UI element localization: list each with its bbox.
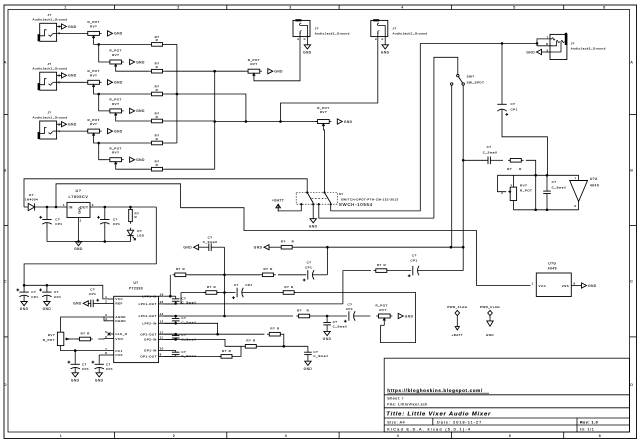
svg-text:GND: GND [405, 314, 414, 318]
PT2399 pin 2 REF [105, 300, 122, 306]
wire V1 riser pin15 row to row Z [343, 271, 371, 304]
PT2399 pin 3 AGND [105, 313, 126, 319]
audio jack J3 (AudioJack2_Ground) input channel 3 [32, 111, 67, 139]
PT2399 pin 15 LPF1-OUT [139, 300, 164, 306]
capacitor C_Small bridging pins 12/11 [164, 333, 196, 341]
svg-text:16: 16 [160, 292, 164, 296]
junction feedback rail top [534, 174, 537, 177]
PT2399 pin 1 VCC [105, 295, 123, 301]
wire return jack J5 tip [281, 37, 378, 122]
wire row D to Rg [225, 315, 294, 317]
svg-text:3: 3 [289, 5, 292, 9]
svg-text:6: 6 [603, 5, 606, 9]
junction mix step [245, 120, 248, 123]
svg-text:4049: 4049 [548, 267, 557, 271]
PT2399 pin 7 CC1 [105, 347, 122, 353]
wire J2 tip to volume pot RV2 [57, 81, 86, 83]
wire DPDT pin to bypass switch link [319, 57, 458, 218]
wire row C to feedback loop [297, 293, 416, 343]
ground arrow below DPDT [309, 219, 318, 229]
junction LED resistor [129, 206, 132, 209]
wire RV2b wiper to send resistor [116, 117, 150, 121]
svg-text:1: 1 [60, 434, 63, 438]
audio jack J4 send (AudioJack2_Ground) [293, 19, 350, 39]
battery flag +BATT [272, 198, 284, 211]
power flag PWR_FLAG GND [480, 305, 500, 337]
svg-text:U?: U? [75, 189, 81, 193]
svg-text:GND: GND [136, 158, 145, 162]
ground flag at J6 mirrored [526, 49, 541, 54]
svg-text:GND: GND [486, 333, 494, 337]
title block url [387, 388, 489, 393]
wire RV4 wiper to send jack J4 [254, 37, 300, 81]
svg-text:C?: C? [113, 218, 118, 222]
wire RV3 wiper down to mix node [94, 137, 150, 143]
svg-text:R_POT: R_POT [520, 188, 532, 192]
junction row F [283, 345, 286, 348]
svg-text:C?: C? [82, 362, 87, 366]
junction C2 [104, 206, 107, 209]
svg-text:GND: GND [20, 307, 29, 311]
svg-text:AudioJack2_Ground: AudioJack2_Ground [315, 32, 350, 36]
junction C4 top [46, 284, 49, 287]
svg-text:RV?: RV? [112, 53, 119, 57]
jack J5 return sleeve wire down [384, 37, 386, 45]
svg-text:AudioJack2_Ground: AudioJack2_Ground [32, 18, 67, 22]
capacitor C3 CP1 5V rail [16, 285, 38, 301]
svg-text:R: R [213, 285, 216, 289]
svg-text:R?: R? [284, 285, 289, 289]
resistor R13 row D [296, 314, 312, 318]
svg-text:C?: C? [552, 180, 557, 184]
svg-text:C?: C? [106, 362, 111, 366]
svg-text:1: 1 [532, 281, 534, 285]
wire R3a to mix bus [165, 142, 177, 144]
svg-text:C?: C? [511, 102, 516, 106]
wire R1a to mix bus [165, 43, 177, 45]
junction pin16 riser [169, 295, 172, 298]
potentiometer RV2b R_POT channel 2 send [108, 109, 124, 117]
wire jack J6 sleeve to ground flag [542, 51, 551, 53]
svg-text:B: B [630, 168, 633, 172]
svg-text:GND: GND [303, 50, 312, 54]
junction return drop [279, 120, 282, 123]
junction mix/echo node [462, 246, 465, 249]
resistor R11 row C first [204, 291, 220, 295]
svg-text:7: 7 [105, 347, 107, 351]
junction echo feed row [462, 159, 465, 162]
potentiometer RV5 R_POT return level [315, 120, 331, 128]
capacitor C4 CP1 5V rail [39, 285, 61, 301]
IC U3 PT2399 echo processor [114, 281, 159, 363]
audio jack J2 (AudioJack2_Ground) input channel 2 [32, 62, 67, 90]
svg-text:D: D [4, 383, 7, 387]
svg-text:1: 1 [105, 295, 107, 299]
svg-text:R: R [135, 215, 138, 219]
ground arrow C6 [71, 373, 80, 383]
capacitor C_Small hanging row F [304, 346, 328, 361]
resistor R18 output row [374, 263, 390, 272]
svg-text:J?: J? [47, 13, 51, 17]
svg-text:R?: R? [281, 240, 286, 244]
svg-text:R?: R? [377, 263, 382, 267]
junction row E staircase [216, 333, 219, 336]
svg-text:C?: C? [487, 145, 492, 149]
resistor R19 echo feed [508, 159, 524, 163]
PT2399 pin 14 LPF2-OUT [139, 312, 164, 318]
svg-text:D: D [630, 383, 633, 387]
svg-text:+BATT: +BATT [452, 333, 464, 337]
svg-text:R?: R? [207, 285, 212, 289]
wire CC0 pin [99, 354, 108, 356]
raw battery rail to 4049 VCC [56, 184, 531, 286]
svg-text:R: R [156, 38, 159, 42]
svg-text:L7805CV: L7805CV [69, 195, 89, 199]
wire RV1 wiper down to mix node [94, 39, 150, 44]
svg-text:LPF1-OUT: LPF1-OUT [139, 302, 157, 306]
svg-text:CC0: CC0 [115, 353, 122, 357]
svg-text:IN: IN [69, 205, 73, 209]
svg-text:B: B [4, 168, 7, 172]
svg-text:R?: R? [81, 331, 86, 335]
wire RV5 wiper down to DPDT switch [323, 127, 324, 192]
capacitor C1 CP1 input [39, 207, 62, 242]
wire J1 tip to volume pot RV1 [57, 32, 86, 34]
svg-text:CP1: CP1 [305, 266, 312, 270]
svg-text:3: 3 [285, 434, 288, 438]
ground flag at RV5 pin 3 [337, 119, 352, 124]
svg-text:J?: J? [47, 111, 51, 115]
junction mix bus row 3 [176, 93, 179, 96]
audio jack J1 (AudioJack2_Ground) input channel 1 [32, 13, 67, 41]
svg-text:CP1: CP1 [511, 107, 518, 111]
svg-text:R: R [156, 65, 159, 69]
mix bus vertical [176, 44, 178, 143]
svg-text:R: R [519, 167, 522, 171]
wire output rail to jack J6 [420, 42, 537, 44]
junction capC row E [174, 333, 177, 336]
svg-text:2: 2 [501, 191, 503, 195]
svg-text:GND: GND [274, 70, 283, 74]
svg-text:GND: GND [68, 25, 77, 29]
wire R8 to VCO pin 6 [98, 338, 108, 340]
svg-text:R?: R? [176, 267, 181, 271]
svg-text:R?: R? [270, 327, 275, 331]
svg-text:R: R [383, 263, 386, 267]
capacitor C12 C_Small feedback [543, 175, 566, 210]
junction capB row D [174, 315, 177, 318]
svg-text:1N4004: 1N4004 [25, 198, 38, 202]
svg-text:SWITCH-DPDT-PTH-CM-132-3013: SWITCH-DPDT-PTH-CM-132-3013 [341, 197, 399, 201]
capacitor C_Small bridging pins 16/15 [164, 296, 196, 304]
svg-text:R?: R? [222, 349, 227, 353]
ground arrow at J5 return [381, 45, 390, 55]
svg-text:GND: GND [74, 247, 83, 251]
capacitor C2 CP1 output [97, 207, 120, 242]
border column ticks [115, 5, 564, 439]
power flag PWR_FLAG +BATT [447, 305, 467, 337]
svg-text:CP1: CP1 [410, 259, 417, 263]
svg-text:LED: LED [137, 233, 145, 237]
resistor R17 mix row [269, 240, 295, 249]
svg-text:Rev: 1.0: Rev: 1.0 [580, 420, 598, 424]
junction pin13 capB [174, 322, 177, 325]
capacitor C_Small hanging row D [323, 316, 347, 331]
wire switched battery rail to diode anode [24, 179, 307, 207]
svg-text:OP2-IN: OP2-IN [144, 338, 157, 342]
wire mix row to switch column [295, 246, 464, 248]
switch SW1 SW_SPDT bypass [451, 74, 485, 85]
wire jack J6 tip and ring tie [537, 35, 550, 52]
svg-text:1: 1 [64, 5, 67, 9]
svg-text:C?: C? [234, 283, 239, 287]
svg-text:GND: GND [344, 120, 353, 124]
wire node to send pot RV2b [99, 94, 108, 111]
ground flag at RV3 pin 3 [108, 129, 123, 134]
svg-text:C_Small: C_Small [313, 354, 328, 358]
svg-text:R?: R? [297, 308, 302, 312]
resistor R1b send resistor [149, 69, 165, 73]
ground flag at RV2 pin 3 [108, 80, 123, 85]
svg-text:R: R [156, 137, 159, 141]
PT2399 pin 16 LPF1-IN [142, 292, 163, 298]
svg-text:C_Small: C_Small [552, 185, 567, 189]
junction jack J6 tie [536, 42, 539, 45]
ground flag at RV1b pin 3 [130, 59, 145, 64]
svg-text:J?: J? [571, 42, 575, 46]
ground flag at J2 sleeve [62, 73, 77, 78]
wire R9 to junction [188, 274, 260, 276]
potentiometer RV4 R_POT master send [246, 69, 262, 77]
junction cap C1 top [46, 206, 49, 209]
svg-text:SW?: SW? [467, 75, 475, 79]
svg-text:KiCad E.D.A. kicad (5.0.1)-4: KiCad E.D.A. kicad (5.0.1)-4 [387, 427, 471, 431]
regulator ground rail [47, 241, 131, 243]
svg-text:OP1-IN: OP1-IN [144, 349, 157, 353]
svg-text:7: 7 [574, 176, 576, 180]
wire LED to ground rail [130, 236, 132, 242]
resistor R8 VCO [77, 337, 93, 341]
junction capA on pin15 row [174, 302, 177, 305]
potentiometer RV6 R_POT delay time [43, 330, 70, 348]
svg-text:2: 2 [177, 5, 180, 9]
svg-text:3: 3 [92, 203, 94, 207]
potentiometer RV1b R_POT channel 1 send [108, 60, 124, 68]
ground flag RfF [254, 245, 269, 250]
svg-text:VCC: VCC [539, 284, 547, 288]
svg-text:11: 11 [160, 336, 164, 340]
wire C8 up to dry mix node [326, 247, 328, 275]
wire pin15 long output row [164, 303, 343, 305]
svg-text:S?: S? [339, 192, 344, 196]
ground arrow C7 [95, 373, 104, 383]
wire row F to capG [259, 345, 308, 347]
svg-text:GND: GND [71, 378, 80, 382]
potentiometer RV7 R_POT echo volume [376, 314, 392, 322]
svg-text:J?: J? [47, 62, 51, 66]
wire R2a to mix bus [165, 93, 177, 95]
svg-text:R?: R? [507, 167, 512, 171]
svg-text:GND: GND [526, 50, 535, 54]
svg-text:R: R [156, 88, 159, 92]
svg-text:CP1: CP1 [346, 307, 353, 311]
svg-text:1: 1 [63, 203, 65, 207]
svg-text:GND: GND [114, 129, 123, 133]
svg-text:GND: GND [183, 246, 192, 250]
svg-text:6: 6 [574, 204, 576, 208]
junction send bus row 4 [213, 120, 216, 123]
svg-text:GND: GND [309, 224, 318, 228]
svg-text:AudioJack2_Ground: AudioJack2_Ground [32, 67, 67, 71]
svg-text:R?: R? [246, 339, 251, 343]
wire +5V down to PT2399 rail [24, 207, 156, 299]
svg-text:D?: D? [137, 229, 142, 233]
junction send bus row 2 [213, 70, 216, 73]
svg-text:GND: GND [254, 246, 263, 250]
svg-text:GND: GND [114, 32, 123, 36]
wire R3b to send bus [165, 168, 215, 170]
svg-text:R: R [277, 327, 280, 331]
svg-text:12: 12 [160, 330, 164, 334]
svg-text:CP1: CP1 [113, 222, 120, 226]
PT2399 pin 11 OP2-IN [144, 336, 164, 342]
resistor R15 row F [243, 339, 259, 348]
wire pin11 to row F [164, 338, 176, 340]
resistor R1a mix resistor [149, 43, 165, 47]
PT2399 pin 8 CC0 [105, 351, 122, 357]
send bus vertical [214, 71, 216, 169]
svg-text:4: 4 [401, 5, 404, 9]
svg-text:RV?: RV? [90, 73, 97, 77]
junction node channel 2 wiper [97, 93, 100, 96]
svg-text:C?: C? [31, 290, 36, 294]
svg-text:https://bloghoskins.blogspot.c: https://bloghoskins.blogspot.com/ [387, 388, 483, 393]
svg-text:x: x [511, 183, 513, 187]
svg-text:GND: GND [381, 50, 390, 54]
svg-text:RV?: RV? [320, 110, 327, 114]
svg-text:LPF1-IN: LPF1-IN [142, 294, 156, 298]
wire pin14 row D [164, 315, 225, 317]
wire DPDT pole1 common to ground [312, 204, 314, 219]
wire node to send pot RV1b [99, 44, 108, 62]
svg-text:R?: R? [264, 267, 269, 271]
svg-text:GND: GND [323, 337, 332, 341]
svg-text:R: R [253, 339, 256, 343]
svg-text:10: 10 [160, 347, 164, 351]
ground flag at J3 sleeve [62, 122, 77, 127]
wire R19 to feedback node [526, 160, 536, 210]
svg-text:CP1: CP1 [55, 222, 62, 226]
svg-text:C_Small: C_Small [483, 151, 498, 155]
wire RV1b wiper to send resistor [116, 68, 150, 71]
svg-text:LPF2-IN: LPF2-IN [142, 322, 156, 326]
feedback top rail [498, 174, 579, 176]
svg-text:4049: 4049 [590, 183, 599, 187]
svg-text:U?G: U?G [548, 262, 556, 266]
ground flag at RV3b pin 3 [130, 157, 145, 162]
wire node to send pot RV3b [99, 143, 108, 160]
wire J3 tip to volume pot RV3 [57, 130, 86, 132]
svg-text:RV?: RV? [90, 122, 97, 126]
svg-text:C?: C? [90, 287, 95, 291]
wire row G up to row F [234, 346, 241, 356]
svg-text:SW_SPDT: SW_SPDT [467, 81, 485, 85]
svg-text:T: T [547, 35, 549, 39]
junction row D [223, 315, 226, 318]
svg-text:RV?: RV? [112, 151, 119, 155]
svg-text:CC1: CC1 [115, 349, 122, 353]
svg-text:2: 2 [80, 219, 82, 223]
svg-text:R_POT: R_POT [43, 338, 55, 342]
svg-text:13: 13 [160, 320, 164, 324]
potentiometer RV1 R_POT channel 1 volume [86, 31, 102, 39]
wire DPDT pin to output jack rail [331, 43, 421, 211]
svg-text:PT2399: PT2399 [129, 286, 143, 290]
potentiometer RV3 R_POT channel 3 volume [86, 129, 102, 137]
capacitor C_Small series capE [199, 235, 225, 251]
svg-text:GND: GND [136, 60, 145, 64]
svg-text:LPF2-OUT: LPF2-OUT [139, 314, 157, 318]
PT2399 pin 6 VCO [105, 335, 123, 341]
svg-text:C: C [4, 279, 7, 283]
svg-text:RV?: RV? [112, 102, 119, 106]
junction C3 top [23, 284, 26, 287]
capacitor C5 REF bypass [88, 287, 108, 307]
PT2399 pin 9 OP1-OUT [140, 353, 163, 359]
junction node channel 3 wiper [97, 142, 100, 145]
wire pin9 to row G [164, 355, 221, 357]
svg-text:C_Small: C_Small [203, 240, 218, 244]
resistor R3a mix resistor [149, 141, 165, 145]
feedback bottom rail [513, 209, 578, 211]
resistor R14 row E [267, 327, 283, 336]
svg-text:OP1-OUT: OP1-OUT [140, 355, 157, 359]
resistor R10 row B second [260, 267, 276, 276]
capacitor C13 CP1 output DC block [497, 43, 547, 175]
ground arrow C4 [43, 302, 52, 312]
ground flag at RV4 pin 3 [268, 69, 283, 74]
title block frame [384, 358, 629, 432]
svg-text:GND: GND [588, 284, 597, 288]
svg-text:R_POT: R_POT [376, 304, 388, 308]
svg-text:C?: C? [54, 290, 59, 294]
resistor R3b send resistor [149, 167, 165, 171]
PT2399 pin 5 CLK_O [105, 330, 127, 336]
junction node channel 1 wiper [97, 43, 100, 46]
ground arrow at J4 send [303, 45, 312, 55]
svg-text:GND: GND [73, 302, 82, 306]
ground flag at RV7 [398, 313, 413, 318]
wire RV7 wiper into loop [383, 322, 385, 326]
svg-text:C?: C? [348, 302, 353, 306]
jack J2 sleeve pin S wire [57, 74, 62, 76]
svg-text:9: 9 [160, 353, 162, 357]
capacitor C9 CP1 row C [217, 283, 281, 299]
svg-text:AudioJack2_Ground: AudioJack2_Ground [393, 32, 428, 36]
svg-text:A: A [630, 60, 633, 64]
svg-text:R: R [182, 267, 185, 271]
inverter U4A 4049 [570, 175, 599, 210]
svg-text:U?: U? [133, 281, 138, 285]
svg-text:5: 5 [509, 434, 512, 438]
svg-text:RV?: RV? [520, 183, 527, 187]
resistor R16 row G [219, 355, 235, 359]
svg-text:SWCH-10554: SWCH-10554 [339, 202, 373, 207]
svg-text:PWR_FLAG: PWR_FLAG [480, 305, 500, 309]
jack J4 send sleeve wire down [306, 37, 308, 45]
svg-text:R: R [229, 349, 232, 353]
wire RV6 wiper to R8 [68, 338, 79, 340]
